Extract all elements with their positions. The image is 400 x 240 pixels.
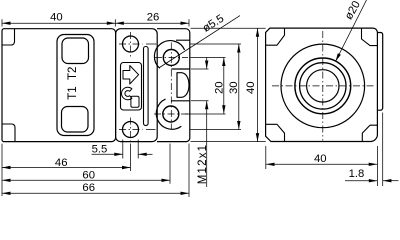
dimension line 60 bbox=[2, 179, 170, 181]
front chamfer mark top-left bbox=[266, 28, 285, 45]
dim 1.8 line right bbox=[383, 180, 399, 182]
extension line left top bbox=[1, 19, 3, 26]
body end-cap step bottom-left bbox=[2, 124, 15, 141]
extension line x=122.8 bottom bbox=[122, 140, 124, 159]
dimension line 40 front bbox=[266, 163, 378, 165]
clamp bar slot bbox=[144, 47, 149, 126]
dimension line 40 vertical bbox=[257, 28, 259, 141]
slot hole A crosshair bbox=[119, 43, 143, 45]
extension line y=69 connector bbox=[191, 68, 209, 70]
extension line x=266 front bbox=[265, 146, 267, 169]
mounting plate edge (1.8) bbox=[378, 33, 383, 111]
icon arrow (actuation direction) bbox=[123, 66, 139, 85]
arrow 5.5 right bbox=[138, 153, 147, 156]
svg-text:26: 26 bbox=[147, 12, 160, 24]
leader line o20 bbox=[336, 0, 367, 62]
extension line x=377.4 front bbox=[376, 146, 378, 186]
bottom edge right part bbox=[157, 141, 187, 143]
slot hole D bbox=[123, 122, 139, 138]
arrow 40v bottom bbox=[256, 133, 259, 142]
extension line x=2 bottom bbox=[1, 144, 3, 196]
arrow 1.8 right bbox=[383, 179, 392, 182]
front circle core bbox=[307, 70, 339, 102]
top edge over bracket right part bbox=[157, 29, 190, 142]
arrow 20 top bbox=[222, 58, 225, 67]
svg-text:T1 T2: T1 T2 bbox=[67, 67, 79, 100]
extension line x=189 top bbox=[188, 19, 190, 26]
front outer circle bbox=[281, 44, 365, 128]
M12 dim line lower bbox=[206, 101, 208, 187]
slot hole A bbox=[123, 36, 139, 52]
arrow 26 right bbox=[181, 22, 190, 25]
svg-text:1.8: 1.8 bbox=[349, 168, 365, 180]
front chamfer mark bottom-left bbox=[266, 124, 285, 141]
dim 5.5 line right bbox=[138, 153, 152, 155]
dim 1.8 line left bbox=[345, 180, 377, 182]
screw hole C (o5.5) bbox=[163, 106, 179, 122]
svg-text:ø5.5: ø5.5 bbox=[201, 13, 227, 35]
sensor body outline (side view) bbox=[2, 29, 116, 142]
arrow 66 right bbox=[181, 192, 190, 195]
svg-text:5.5: 5.5 bbox=[92, 143, 108, 155]
svg-text:M12x1: M12x1 bbox=[197, 144, 209, 185]
leader arrow o20 bbox=[336, 53, 341, 61]
sensing area T1 (bottom rounded square) bbox=[62, 107, 89, 133]
extension line y=129.5 right bbox=[146, 129, 156, 131]
dimension line 40/26 top bbox=[2, 22, 189, 24]
extension line y=57.5 right bbox=[191, 57, 226, 59]
extension line y=28.7 right bbox=[191, 27, 266, 29]
step line top right bbox=[176, 39, 190, 41]
screw hole B (o5.5) bbox=[163, 50, 179, 66]
arrow 60 right bbox=[162, 179, 171, 182]
extension line x=114 top bbox=[114, 19, 116, 26]
dimension line 66 bbox=[2, 192, 189, 194]
arrow 40v top bbox=[256, 28, 259, 37]
dimension line 20 bbox=[223, 58, 225, 114]
arrow 46 left bbox=[2, 166, 11, 169]
M12 connector barrel bbox=[172, 68, 190, 70]
M12 dim line upper bbox=[206, 58, 208, 70]
slot hole D crosshair bbox=[119, 129, 143, 131]
extension line x=170 bottom bbox=[169, 144, 171, 184]
arrow 66 left bbox=[2, 192, 11, 195]
dimension line 46 bbox=[2, 167, 131, 169]
svg-text:ø20: ø20 bbox=[343, 0, 363, 22]
extension line y=141.6 right bbox=[191, 141, 266, 143]
icon hook bbox=[122, 87, 132, 100]
screw hole C crosshair bbox=[154, 113, 188, 115]
svg-text:40: 40 bbox=[245, 81, 257, 94]
arrow 40 right bbox=[107, 22, 116, 25]
leader line o5.5 bbox=[160, 16, 241, 68]
extension line x=130.5 bottom bbox=[130, 144, 132, 172]
arrow 46 right bbox=[122, 166, 131, 169]
mounting bracket plate bbox=[116, 29, 158, 142]
dim 5.5 line left bbox=[92, 153, 123, 155]
extension line x=382.7 front bbox=[382, 113, 384, 187]
label plate bbox=[57, 35, 94, 136]
arrow 1.8 left bbox=[369, 179, 378, 182]
svg-text:46: 46 bbox=[55, 157, 68, 169]
svg-text:20: 20 bbox=[213, 81, 225, 94]
svg-text:30: 30 bbox=[228, 81, 240, 94]
arrow 20 bottom bbox=[222, 105, 225, 114]
extension line x=138.2 bottom bbox=[137, 140, 139, 159]
arrow M12 bottom bbox=[205, 101, 208, 110]
arrow 40f left bbox=[266, 163, 275, 166]
arrow 30 top bbox=[237, 44, 240, 53]
extension line y=114 right bbox=[185, 113, 226, 115]
body end-cap step top-left bbox=[2, 29, 14, 45]
arrow 40 left bbox=[2, 22, 11, 25]
arrow 26 left bbox=[115, 22, 124, 25]
front chamfer mark top-right bbox=[362, 28, 378, 45]
svg-text:60: 60 bbox=[82, 169, 95, 181]
front circle o20 bbox=[295, 58, 351, 114]
front view outline bbox=[266, 28, 378, 141]
arrow 5.5 left bbox=[114, 153, 123, 156]
front center crosshair bbox=[272, 85, 374, 87]
arrow 40f right bbox=[369, 163, 378, 166]
svg-text:40: 40 bbox=[314, 153, 327, 165]
arrow 30 bottom bbox=[237, 121, 240, 130]
front circle inner step bbox=[300, 63, 346, 109]
extension line x=189 bottom bbox=[188, 144, 190, 198]
screw boss top bbox=[154, 41, 184, 69]
extension line y=100.8 connector bbox=[191, 100, 209, 102]
extension line y=44 right bbox=[146, 43, 156, 45]
front chamfer mark bottom-right bbox=[362, 125, 377, 141]
screw boss bottom bbox=[156, 99, 181, 129]
arrow M12 top bbox=[205, 61, 208, 70]
M12 connector nut bbox=[177, 73, 189, 98]
dimension line 30 bbox=[238, 44, 240, 130]
svg-text:40: 40 bbox=[50, 12, 63, 24]
svg-text:66: 66 bbox=[82, 182, 95, 194]
screw hole B crosshair bbox=[155, 57, 188, 59]
icon label plate bbox=[121, 63, 142, 111]
arrow 60 left bbox=[2, 179, 11, 182]
sensing area T2 (top rounded square) bbox=[62, 38, 89, 64]
